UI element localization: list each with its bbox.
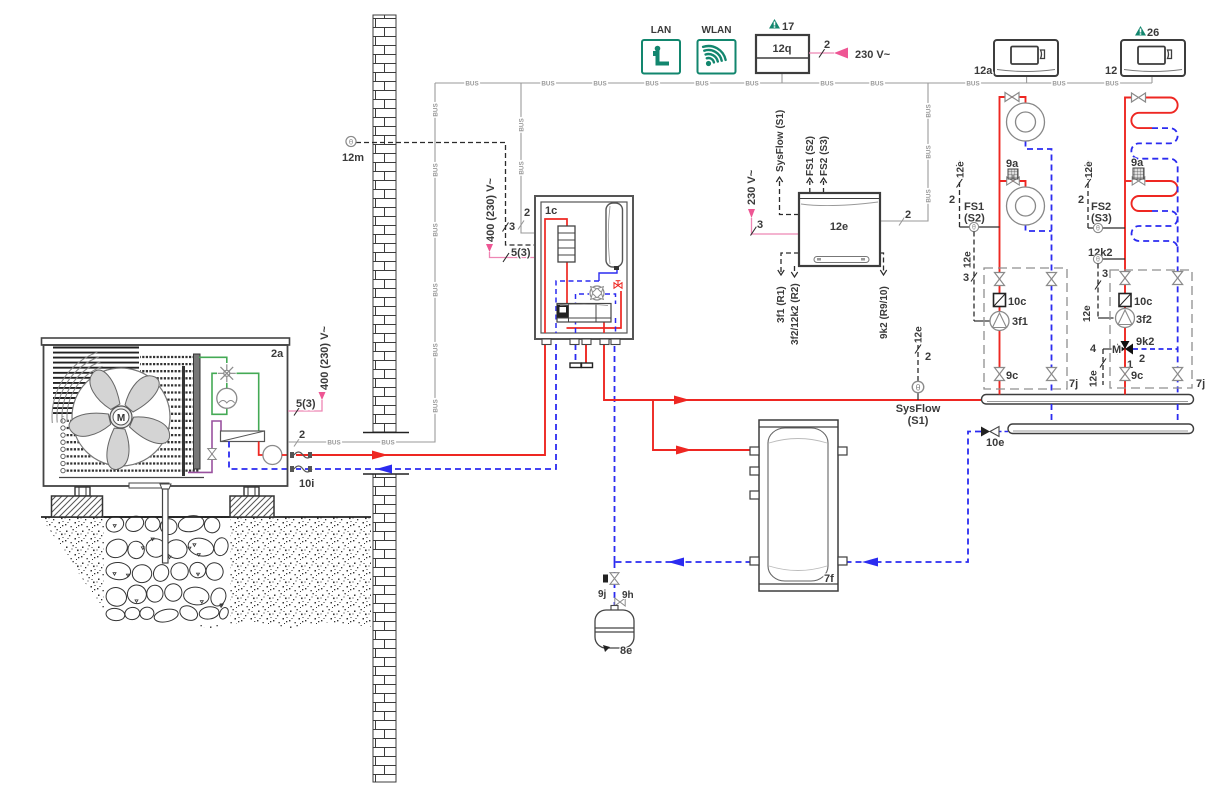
svg-text:2: 2 <box>925 351 931 363</box>
svg-text:FS1 (S2): FS1 (S2) <box>805 136 816 176</box>
svg-text:BUS: BUS <box>870 81 883 88</box>
svg-text:12e: 12e <box>1089 370 1100 387</box>
svg-text:7j: 7j <box>1196 378 1205 390</box>
svg-text:BUS: BUS <box>327 440 340 447</box>
svg-text:9k2 (R9/10): 9k2 (R9/10) <box>879 286 890 339</box>
svg-text:3: 3 <box>757 219 763 231</box>
svg-text:9k2: 9k2 <box>1136 336 1154 348</box>
svg-text:4: 4 <box>1090 343 1097 355</box>
svg-text:5(3): 5(3) <box>296 398 316 410</box>
svg-text:WLAN: WLAN <box>702 25 732 36</box>
svg-text:BUS: BUS <box>519 161 526 174</box>
svg-text:2: 2 <box>1139 353 1145 365</box>
svg-text:12q: 12q <box>773 43 792 55</box>
svg-text:BUS: BUS <box>433 223 440 236</box>
svg-text:17: 17 <box>782 21 794 33</box>
svg-text:FS2: FS2 <box>1091 201 1111 213</box>
svg-text:SysFlow (S1): SysFlow (S1) <box>775 110 786 172</box>
svg-text:400 (230) V~: 400 (230) V~ <box>485 178 497 242</box>
svg-text:12a: 12a <box>974 65 993 77</box>
svg-text:BUS: BUS <box>433 399 440 412</box>
svg-text:12e: 12e <box>1084 161 1095 178</box>
svg-text:BUS: BUS <box>433 163 440 176</box>
svg-text:BUS: BUS <box>645 81 658 88</box>
svg-text:9c: 9c <box>1006 370 1018 382</box>
svg-text:7j: 7j <box>1069 378 1078 390</box>
svg-text:5(3): 5(3) <box>511 247 531 259</box>
svg-text:BUS: BUS <box>966 81 979 88</box>
svg-text:230 V~: 230 V~ <box>855 49 891 61</box>
svg-text:BUS: BUS <box>926 145 933 158</box>
svg-text:FS2 (S3): FS2 (S3) <box>819 136 830 176</box>
svg-text:3f2: 3f2 <box>1136 314 1152 326</box>
svg-text:SysFlow: SysFlow <box>896 403 941 415</box>
svg-text:(S3): (S3) <box>1091 213 1112 225</box>
svg-text:9a: 9a <box>1131 157 1144 169</box>
svg-text:12e: 12e <box>914 326 925 343</box>
svg-text:2: 2 <box>299 429 305 441</box>
svg-text:2a: 2a <box>271 348 284 360</box>
svg-text:M: M <box>1112 344 1121 356</box>
svg-text:230 V~: 230 V~ <box>746 169 758 205</box>
svg-text:BUS: BUS <box>433 343 440 356</box>
svg-text:BUS: BUS <box>1105 81 1118 88</box>
svg-text:12e: 12e <box>830 221 848 233</box>
svg-text:BUS: BUS <box>433 283 440 296</box>
svg-text:26: 26 <box>1147 27 1159 39</box>
svg-text:10c: 10c <box>1008 296 1026 308</box>
svg-text:2: 2 <box>1078 194 1084 206</box>
svg-text:3f2/12k2 (R2): 3f2/12k2 (R2) <box>790 283 801 345</box>
svg-text:2: 2 <box>905 209 911 221</box>
svg-text:BUS: BUS <box>820 81 833 88</box>
svg-text:2: 2 <box>949 194 955 206</box>
svg-text:BUS: BUS <box>381 440 394 447</box>
svg-text:3f1 (R1): 3f1 (R1) <box>776 286 787 323</box>
svg-text:3: 3 <box>1102 268 1108 280</box>
svg-text:10i: 10i <box>299 478 314 490</box>
svg-text:BUS: BUS <box>593 81 606 88</box>
svg-text:9h: 9h <box>622 590 634 601</box>
svg-text:12e: 12e <box>963 251 974 268</box>
svg-text:BUS: BUS <box>695 81 708 88</box>
svg-text:M: M <box>117 413 125 424</box>
svg-text:9c: 9c <box>1131 370 1143 382</box>
svg-text:12e: 12e <box>1082 305 1093 322</box>
svg-text:BUS: BUS <box>926 104 933 117</box>
svg-text:BUS: BUS <box>465 81 478 88</box>
svg-text:3: 3 <box>963 272 969 284</box>
svg-text:9a: 9a <box>1006 158 1019 170</box>
svg-text:400 (230) V~: 400 (230) V~ <box>319 326 331 390</box>
svg-text:BUS: BUS <box>745 81 758 88</box>
svg-text:10e: 10e <box>986 437 1004 449</box>
svg-text:BUS: BUS <box>519 118 526 131</box>
svg-text:3f1: 3f1 <box>1012 316 1028 328</box>
svg-text:2: 2 <box>824 39 830 51</box>
svg-text:12m: 12m <box>342 152 364 164</box>
svg-text:LAN: LAN <box>651 25 672 36</box>
svg-text:7f: 7f <box>824 573 834 585</box>
svg-text:BUS: BUS <box>926 189 933 202</box>
svg-text:8e: 8e <box>620 645 632 657</box>
svg-text:9j: 9j <box>598 589 607 600</box>
svg-text:10c: 10c <box>1134 296 1152 308</box>
svg-text:BUS: BUS <box>1052 81 1065 88</box>
svg-text:2: 2 <box>524 207 530 219</box>
svg-text:FS1: FS1 <box>964 201 984 213</box>
svg-text:BUS: BUS <box>541 81 554 88</box>
svg-text:3: 3 <box>509 221 515 233</box>
svg-text:12: 12 <box>1105 65 1117 77</box>
svg-text:BUS: BUS <box>433 103 440 116</box>
svg-text:1c: 1c <box>545 205 557 217</box>
svg-text:12e: 12e <box>956 161 967 178</box>
svg-text:(S1): (S1) <box>908 415 929 427</box>
